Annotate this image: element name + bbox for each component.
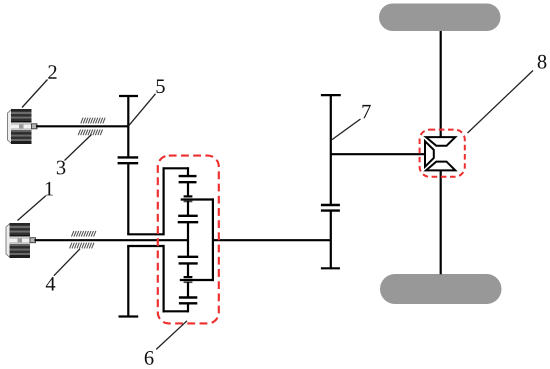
differential: side pinion gear — [425, 141, 434, 167]
lower half axle — [440, 170, 442, 274]
planet pivot small plate gray (lower) — [184, 281, 193, 283]
label 2 — [48, 65, 56, 79]
leader line to label 3 — [65, 135, 92, 161]
sun gear shaft — [187, 222, 189, 257]
label 3 — [57, 161, 65, 175]
motor M2 (label 2, top-left electric motor) — [8, 109, 38, 144]
ring gear top bracket — [163, 167, 189, 169]
ring-planet mesh: ring plate — [179, 175, 197, 177]
shaft from motor M2 — [36, 125, 128, 127]
countershaft 5: lowest vertical — [127, 246, 129, 317]
countershaft 5: bottom T-bar — [119, 315, 139, 317]
sun bottom plate — [178, 256, 199, 258]
ring gear lower stem — [187, 303, 189, 312]
planet carrier vertical — [212, 198, 214, 281]
planetary gear set boundary (dashed box 6) — [158, 156, 219, 324]
leader line to label 1 — [18, 196, 46, 221]
leader line to label 6 — [156, 321, 187, 350]
gear mesh on countershaft 5: lower plate — [118, 162, 139, 164]
label 5 — [156, 79, 164, 93]
bottom wheel — [380, 274, 502, 304]
label 1 — [46, 182, 53, 196]
differential boundary (dashed box 8) — [420, 130, 465, 177]
countershaft 5: lower vertical to ring-gear frame — [127, 163, 129, 234]
gear mesh on countershaft 5: upper plate — [118, 156, 139, 158]
ring-gear frame lower rung — [127, 245, 163, 247]
countershaft 5: upper vertical — [127, 96, 129, 158]
gear shaft 7: lower vertical — [330, 211, 332, 269]
ring gear left vertical (lower) — [163, 245, 165, 313]
planet pivot small plate (upper) — [184, 195, 193, 197]
gear mesh on shaft 7: upper plate — [321, 204, 340, 206]
support hatching above motor M1 shaft — [72, 231, 96, 237]
carrier upper arm — [181, 198, 213, 200]
output shaft from carrier to gear shaft 7 — [213, 239, 331, 241]
leader line to label 4 — [54, 249, 80, 276]
differential: upper bevel gear — [426, 137, 455, 146]
ring gear bottom bracket — [163, 310, 189, 312]
gear shaft 7: top T-bar — [321, 94, 341, 96]
planet gear mid shaft (lower) — [187, 263, 189, 277]
label 8 — [538, 55, 547, 69]
planet gear mid shaft (upper) — [187, 201, 189, 216]
planet gear lower shaft — [187, 282, 189, 298]
support hatching below motor M2 shaft — [78, 130, 102, 136]
planet pivot small plate gray (upper) — [184, 200, 193, 202]
label 7 — [362, 105, 370, 118]
carrier lower arm — [180, 279, 213, 281]
input shaft from motor M1 to sun gear — [35, 239, 189, 241]
planet-ring mesh: ring plate (bottom) — [179, 302, 197, 304]
sun-planet mesh: planet plate (lower) — [179, 262, 198, 264]
upper half axle — [440, 31, 442, 138]
gear shaft 7: upper vertical — [330, 95, 332, 206]
label 6 — [145, 351, 154, 365]
gear mesh on shaft 7: lower plate — [321, 209, 340, 211]
planet-sun mesh: sun top plate — [178, 221, 199, 223]
motor M1 (label 1, lower-left electric motor) — [6, 223, 36, 258]
label 4 — [46, 277, 56, 290]
support hatching below motor M1 shaft — [70, 243, 94, 249]
planet pivot small plate (lower) — [184, 276, 193, 278]
ring-planet mesh: planet plate — [179, 181, 197, 183]
top wheel — [379, 4, 501, 32]
planet gear upper shaft — [187, 182, 189, 196]
shaft to final drive — [331, 153, 426, 155]
planet-sun mesh: planet plate (upper) — [178, 215, 198, 217]
countershaft 5: top T-bar — [119, 95, 138, 97]
leader line to label 7 — [332, 119, 361, 140]
leader line to label 2 — [22, 80, 48, 108]
support hatching above motor M2 shaft — [81, 118, 105, 124]
ring gear left vertical (upper) — [163, 167, 165, 235]
leader line to label 5 — [129, 94, 156, 126]
ring-gear frame upper rung — [127, 233, 163, 235]
differential: lower bevel gear — [426, 162, 455, 171]
planet-ring mesh: planet plate (bottom) — [179, 296, 197, 298]
ring gear upper stem — [187, 167, 189, 176]
leader line to label 8 — [468, 71, 534, 134]
gear shaft 7: bottom T-bar — [321, 267, 340, 269]
